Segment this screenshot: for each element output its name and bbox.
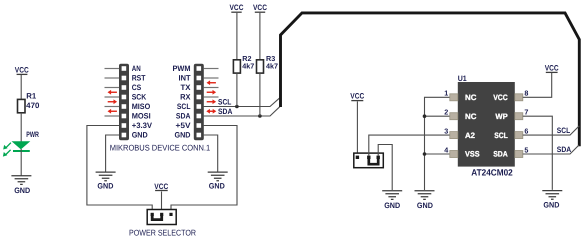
svg-text:3: 3	[444, 126, 448, 135]
svg-text:2: 2	[444, 108, 448, 117]
pin PWM	[197, 66, 202, 71]
stub wire MISO	[105, 106, 120, 108]
wire U1 pin5 SDA to bus	[523, 145, 579, 154]
svg-text:VCC: VCC	[154, 182, 168, 191]
svg-text:VCC: VCC	[230, 3, 244, 12]
pin CS	[122, 85, 127, 90]
svg-text:VCC: VCC	[350, 91, 364, 100]
svg-text:VCC: VCC	[15, 65, 29, 74]
svg-text:AN: AN	[132, 64, 141, 73]
wire SDA net to bus	[204, 106, 281, 116]
wire U1 pin4	[425, 153, 450, 155]
LED PWR (green)	[3, 141, 30, 156]
ground (mikrobus left)	[96, 172, 116, 181]
svg-text:MOSI: MOSI	[132, 112, 151, 121]
power symbol VCC (U1)	[545, 64, 559, 73]
pin GND	[122, 133, 127, 138]
svg-text:+5V: +5V	[176, 121, 192, 130]
wire +5V to box right edge	[171, 126, 237, 214]
power symbol VCC (R3)	[253, 3, 267, 12]
pin SCL	[197, 104, 202, 109]
svg-text:SDA: SDA	[218, 107, 233, 116]
pin MISO	[122, 104, 127, 109]
stub wire TX	[204, 87, 219, 89]
stub wire RST	[105, 77, 120, 79]
wire GND pin down to ground (right)	[204, 135, 218, 172]
svg-text:VSS: VSS	[465, 150, 480, 159]
pin RST	[122, 76, 127, 81]
wire VCC to R2	[236, 13, 238, 60]
svg-text:NC: NC	[465, 93, 477, 102]
junction dot pin2	[423, 114, 427, 118]
jumper A2 SEL	[354, 153, 384, 168]
ground (mikrobus right)	[208, 172, 228, 181]
ground (jumper)	[382, 191, 402, 200]
stub wire SCK	[105, 96, 120, 98]
pin MOSI	[122, 114, 127, 119]
svg-text:GND: GND	[417, 201, 433, 210]
wire jumper middle pad to A2 (U1 pin3)	[369, 135, 450, 156]
svg-text:R1: R1	[26, 91, 37, 100]
pin SCK	[122, 95, 127, 100]
stub wire INT	[204, 77, 219, 79]
wire R1 to LED	[20, 113, 22, 142]
pin AN	[122, 66, 127, 71]
wire R3 to SDA	[259, 73, 261, 116]
svg-text:POWER SELECTOR: POWER SELECTOR	[129, 227, 196, 237]
junction dot R2/SCL	[235, 105, 239, 109]
wire VCC to R1	[20, 75, 22, 99]
power symbol VCC (LED branch)	[15, 65, 29, 74]
pad pin1	[450, 94, 458, 101]
pin SDA	[197, 114, 202, 119]
pad pin8	[515, 94, 523, 101]
svg-text:GND: GND	[543, 201, 559, 210]
svg-text:MISO: MISO	[132, 102, 151, 111]
svg-text:GND: GND	[209, 182, 225, 191]
svg-text:AT24CM02: AT24CM02	[471, 167, 513, 177]
resistor R3	[257, 60, 264, 73]
svg-text:SDA: SDA	[557, 145, 572, 154]
svg-text:MIKROBUS DEVICE CONN.1: MIKROBUS DEVICE CONN.1	[110, 143, 211, 152]
svg-text:A2: A2	[465, 131, 476, 140]
pin GND	[197, 133, 202, 138]
pad pin6	[515, 132, 523, 139]
wire U1 pin8 to VCC	[523, 73, 552, 97]
arrow (MISO/MOSI) left	[108, 109, 117, 114]
stub wire AN	[105, 68, 120, 70]
wire U1 pin1 tie	[425, 97, 450, 190]
svg-text:GND: GND	[97, 182, 113, 191]
junction dot pin4	[423, 152, 427, 156]
wire U1 pin7 to ground	[523, 116, 553, 190]
svg-text:4k7: 4k7	[242, 62, 254, 71]
svg-text:6: 6	[524, 126, 528, 135]
wire R2 to SCL	[236, 73, 238, 106]
wire LED to ground	[20, 149, 22, 176]
stub wire PWM	[204, 68, 219, 70]
svg-text:GND: GND	[132, 131, 148, 140]
pad pin4	[450, 151, 458, 158]
svg-text:GND: GND	[175, 131, 191, 140]
svg-text:470: 470	[26, 101, 40, 110]
pad pin7	[515, 113, 523, 120]
svg-text:CS: CS	[132, 83, 142, 92]
wire jumper right pad to ground	[378, 145, 392, 191]
svg-text:RX: RX	[180, 93, 191, 102]
mikrobus left header body	[119, 64, 129, 141]
svg-text:4k7: 4k7	[266, 62, 278, 71]
arrow (RX/SCL) right	[207, 99, 216, 104]
arrow (SCL/SDA) both	[206, 109, 216, 114]
wire U1 pin2	[425, 115, 450, 117]
svg-text:GND: GND	[14, 186, 30, 195]
power symbol VCC (A2 jumper)	[350, 91, 364, 100]
ground (U1 NC/VSS)	[415, 191, 435, 200]
bus (thick)	[281, 13, 580, 146]
wire GND pin down to ground	[106, 135, 120, 172]
arrow (CS/SCK) left	[108, 90, 117, 95]
junction dot R3/SDA	[258, 114, 262, 118]
svg-text:VCC: VCC	[545, 64, 559, 73]
stub wire CS	[105, 87, 120, 89]
svg-text:SCL: SCL	[557, 126, 571, 135]
pin TX	[197, 85, 202, 90]
arrow (TX/RX) right	[207, 90, 216, 95]
stub wire MOSI	[105, 115, 120, 117]
svg-text:RST: RST	[132, 74, 146, 83]
svg-text:INT: INT	[179, 74, 191, 83]
IC U1 AT24CM02 body	[458, 82, 515, 167]
svg-text:WP: WP	[495, 112, 507, 121]
resistor R1	[18, 99, 26, 112]
svg-text:SCL: SCL	[494, 131, 508, 140]
resistor R2	[233, 60, 240, 73]
svg-text:5: 5	[524, 145, 528, 154]
pin INT	[197, 76, 202, 81]
svg-text:NC: NC	[465, 112, 477, 121]
svg-text:SCK: SCK	[132, 93, 147, 102]
power symbol VCC (power selector)	[154, 182, 168, 191]
pad pin3	[450, 132, 458, 139]
svg-text:VCC: VCC	[253, 3, 267, 12]
arrow (INT/TX) left	[207, 80, 216, 85]
jumper POWER SELECTOR	[147, 210, 176, 225]
pin RX	[197, 95, 202, 100]
svg-text:SDA: SDA	[176, 112, 191, 121]
wire +3.3V to box left edge	[87, 126, 152, 214]
svg-text:SCL: SCL	[177, 102, 191, 111]
mikrobus right header body	[194, 64, 204, 141]
svg-text:4: 4	[444, 145, 448, 154]
wire U1 pin6 SCL to bus	[523, 126, 580, 135]
svg-text:+3.3V: +3.3V	[132, 121, 153, 130]
arrow (SCK/MISO) right	[108, 99, 117, 104]
wire VCC to jumper left pad	[356, 101, 358, 156]
pin +5V	[197, 123, 202, 128]
svg-text:7: 7	[524, 108, 528, 117]
pad pin5	[515, 151, 523, 158]
svg-text:TX: TX	[181, 83, 192, 92]
wire VCC to selector middle pad	[161, 192, 163, 214]
svg-text:PWR: PWR	[26, 130, 39, 139]
svg-text:SCL: SCL	[218, 98, 232, 107]
svg-text:U1: U1	[458, 74, 468, 83]
svg-text:8: 8	[524, 89, 528, 98]
power symbol VCC (R2)	[230, 3, 244, 12]
wire VCC to R3	[259, 13, 261, 60]
ground (LED)	[11, 176, 31, 185]
stub wire RX	[204, 96, 219, 98]
svg-text:SDA: SDA	[493, 150, 508, 159]
svg-text:1: 1	[444, 89, 448, 98]
pin +3.3V	[122, 123, 127, 128]
ground (U1 WP)	[542, 191, 562, 200]
svg-text:GND: GND	[384, 201, 400, 210]
pad pin2	[450, 113, 458, 120]
svg-text:PWM: PWM	[173, 64, 191, 73]
svg-text:VCC: VCC	[493, 93, 508, 102]
wire SCL net to bus	[204, 97, 281, 106]
